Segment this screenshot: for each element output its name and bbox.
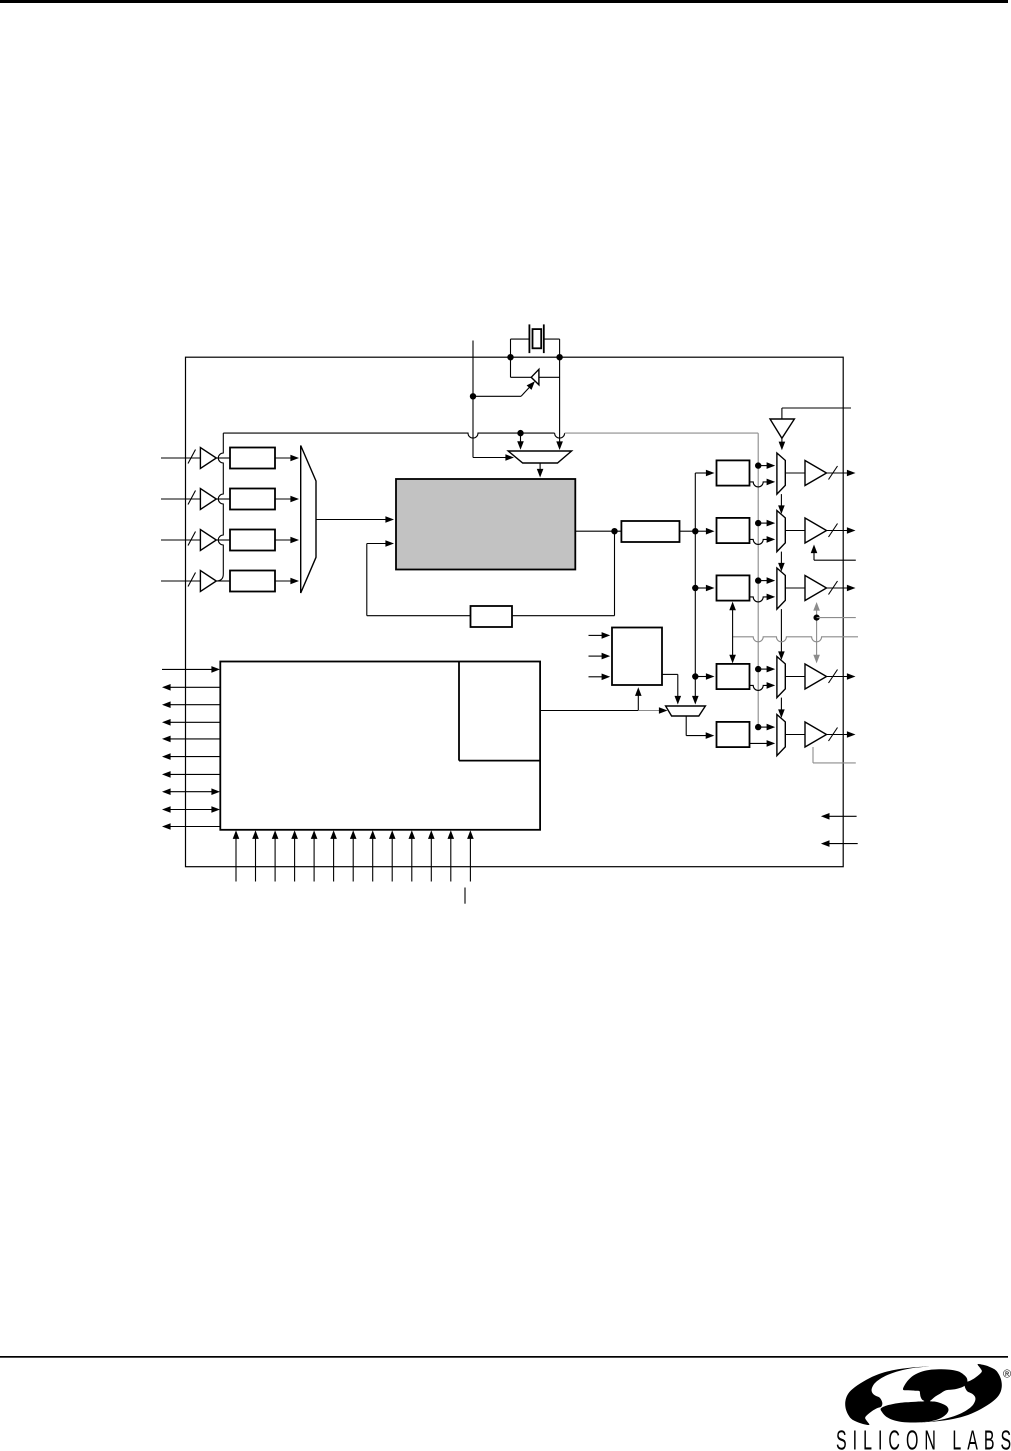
svg-text:®: ® <box>1003 1369 1011 1381</box>
svg-text:SILICON LABS: SILICON LABS <box>836 1425 1011 1451</box>
